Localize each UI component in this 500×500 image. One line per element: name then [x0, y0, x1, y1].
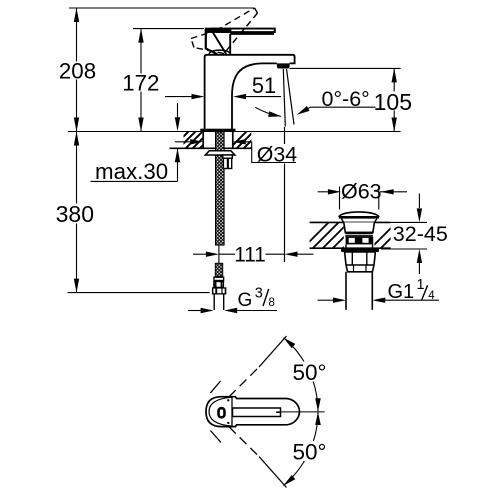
svg-text:50°: 50°	[293, 440, 327, 465]
svg-text:G1: G1	[388, 281, 415, 303]
svg-text:3: 3	[255, 286, 263, 302]
svg-text:4: 4	[428, 290, 435, 302]
svg-text:50°: 50°	[293, 360, 327, 385]
svg-text:0°-6°: 0°-6°	[322, 87, 370, 111]
svg-text:32-45: 32-45	[393, 222, 448, 246]
svg-text:8: 8	[269, 297, 275, 309]
svg-text:Ø34: Ø34	[257, 142, 297, 166]
svg-text:111: 111	[234, 244, 266, 267]
svg-text:G: G	[238, 290, 253, 311]
svg-text:105: 105	[374, 89, 412, 115]
svg-text:Ø63: Ø63	[341, 180, 382, 204]
svg-text:172: 172	[122, 71, 159, 96]
svg-text:1: 1	[417, 277, 425, 293]
svg-text:380: 380	[56, 201, 94, 227]
svg-text:51: 51	[252, 73, 276, 98]
svg-text:max.30: max.30	[95, 159, 168, 184]
svg-text:208: 208	[59, 59, 96, 84]
